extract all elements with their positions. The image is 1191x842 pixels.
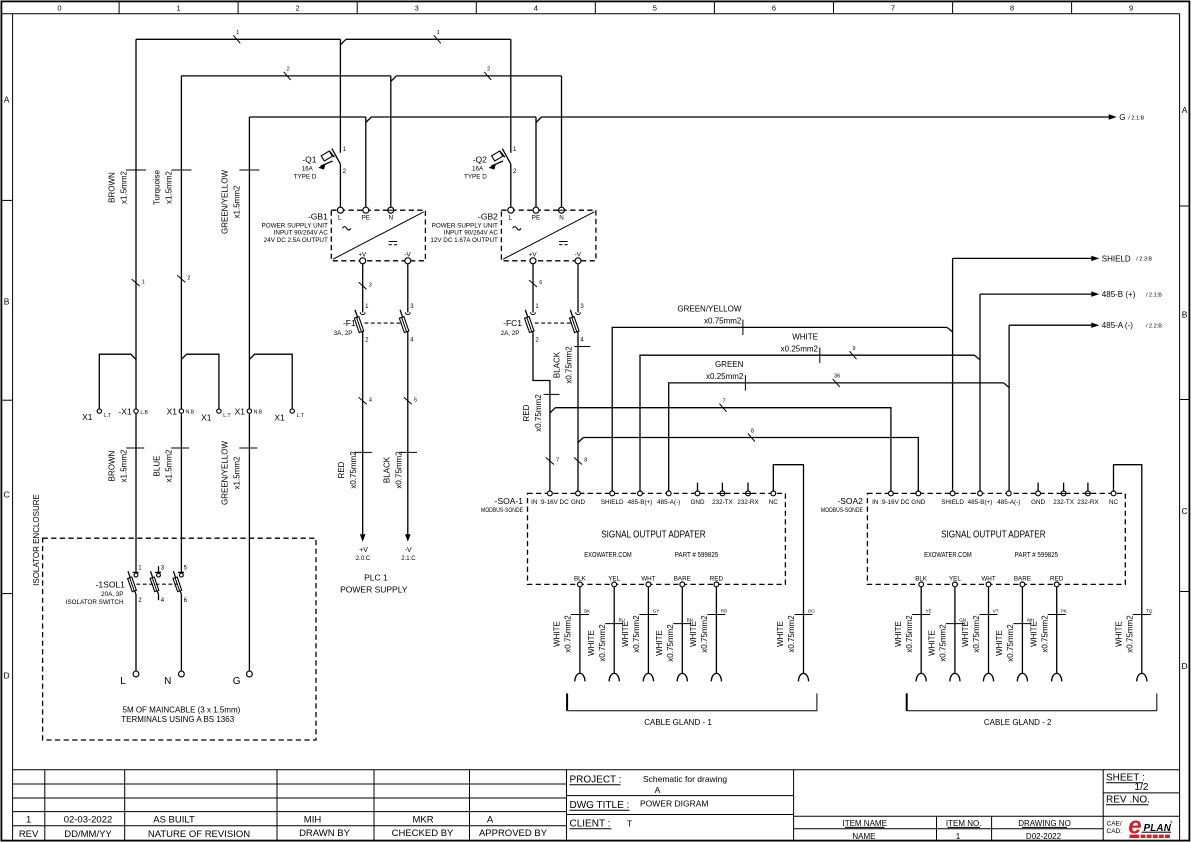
- junction to GB1 PE: [366, 117, 372, 123]
- label WHITE x0.25mm2: [781, 333, 820, 363]
- wire FC1 GND to SOA-1 GND: [577, 333, 579, 491]
- svg-text:1/2: 1/2: [1135, 782, 1149, 793]
- svg-text:L.B: L.B: [140, 410, 148, 416]
- svg-text:x0.75mm2: x0.75mm2: [787, 615, 796, 653]
- svg-text:PROJECT :: PROJECT :: [570, 775, 622, 786]
- svg-text:485-A(-): 485-A(-): [997, 499, 1020, 506]
- wire number 5: [404, 397, 417, 404]
- label BROWN x1.5mm2 lower: [107, 448, 144, 482]
- svg-text:485-A (-): 485-A (-): [1102, 321, 1133, 330]
- svg-text:EXOWATER.COM: EXOWATER.COM: [584, 552, 632, 559]
- svg-text:TERMINALS USING A BS 1363: TERMINALS USING A BS 1363: [121, 715, 234, 724]
- wire number 8 on drop: [574, 458, 587, 465]
- svg-text:B: B: [4, 297, 10, 307]
- svg-text:L: L: [120, 676, 126, 687]
- svg-text:GREEN/YELLOW: GREEN/YELLOW: [221, 170, 230, 234]
- svg-text:3: 3: [369, 282, 372, 288]
- svg-text:BLK: BLK: [915, 576, 928, 583]
- svg-text:7: 7: [891, 4, 895, 13]
- svg-text:POWER SUPPLY UNIT: POWER SUPPLY UNIT: [432, 222, 498, 229]
- svg-text:REV: REV: [19, 829, 39, 840]
- svg-text:AS BUILT: AS BUILT: [153, 815, 195, 826]
- svg-text:TYPE D: TYPE D: [464, 173, 487, 180]
- terminal X1 L.T branch 2: [181, 354, 230, 422]
- svg-text:BLK: BLK: [574, 576, 587, 583]
- svg-text:B: B: [1182, 310, 1188, 320]
- svg-text:WHT: WHT: [981, 576, 995, 583]
- label BLUE x1.5mm2: [152, 448, 189, 482]
- svg-text:232-RX: 232-RX: [1077, 499, 1099, 506]
- svg-text:MODBUS-SONDE: MODBUS-SONDE: [821, 507, 863, 514]
- wire GB1 -V down: [407, 264, 409, 313]
- svg-text:9: 9: [852, 346, 855, 352]
- svg-text:-Q2: -Q2: [473, 154, 487, 164]
- svg-text:MODBUS-SONDE: MODBUS-SONDE: [481, 507, 523, 514]
- svg-text:A: A: [655, 785, 661, 795]
- svg-text:NAME: NAME: [852, 832, 875, 841]
- SOA2 cable entry arcs: [916, 673, 1147, 681]
- svg-text:/ 2.2:B: / 2.2:B: [1146, 324, 1162, 330]
- svg-text:-SOA-1: -SOA-1: [495, 496, 524, 506]
- svg-text:GND: GND: [691, 499, 705, 506]
- svg-text:ISOLATOR ENCLOSURE: ISOLATOR ENCLOSURE: [32, 494, 41, 586]
- eplan logo: [1128, 813, 1172, 840]
- item name fields: [842, 819, 1070, 841]
- svg-text:L.T: L.T: [223, 413, 230, 419]
- svg-text:IN :9-16V DC: IN :9-16V DC: [872, 499, 910, 506]
- svg-text:BLACK: BLACK: [382, 456, 391, 483]
- svg-text:x0.75mm2: x0.75mm2: [666, 624, 675, 662]
- svg-text:x0.25mm2: x0.25mm2: [781, 344, 819, 353]
- svg-text:6: 6: [772, 4, 776, 13]
- fuse -F1 3A 2P: [334, 304, 415, 344]
- svg-text:YEL: YEL: [949, 576, 961, 583]
- svg-text:WHITE: WHITE: [995, 630, 1004, 656]
- svg-text:485-B(+): 485-B(+): [628, 499, 653, 506]
- svg-text:x0.75mm2: x0.75mm2: [1126, 615, 1135, 653]
- SOA2 output wires white: [921, 587, 1056, 673]
- svg-text:16A: 16A: [302, 165, 314, 172]
- svg-text:DRAWING NO: DRAWING NO: [1018, 819, 1071, 828]
- label GREEN/YELLOW x1.5mm2 top: [221, 170, 260, 234]
- svg-text:x1.5mm2: x1.5mm2: [164, 449, 173, 482]
- svg-text:G: G: [1119, 113, 1125, 122]
- terminal N: [164, 671, 184, 687]
- svg-text:GREEN/YELLOW: GREEN/YELLOW: [677, 305, 741, 314]
- svg-text:4: 4: [534, 4, 538, 13]
- svg-text:GND: GND: [1031, 499, 1045, 506]
- wire number 6: [529, 280, 542, 287]
- svg-text:16A: 16A: [472, 165, 484, 172]
- svg-text:-1SOL1: -1SOL1: [96, 579, 126, 589]
- left ruler ticks and letters: [1, 95, 12, 681]
- project title fields: [570, 774, 728, 830]
- svg-text:9: 9: [1129, 4, 1133, 13]
- terminal X1 N.B on turquoise wire: [167, 406, 195, 416]
- terminal L: [120, 671, 139, 687]
- svg-text:WHITE: WHITE: [587, 630, 596, 656]
- svg-text:N: N: [389, 214, 394, 221]
- svg-text:x0.75mm2: x0.75mm2: [598, 624, 607, 662]
- sheet number fields: [1106, 773, 1150, 836]
- svg-text:D: D: [4, 671, 10, 681]
- svg-text:D02-2022: D02-2022: [1026, 832, 1062, 841]
- svg-text:SHIELD: SHIELD: [941, 499, 964, 506]
- svg-text:-F1: -F1: [343, 318, 356, 328]
- svg-text:INPUT 90/264V AC: INPUT 90/264V AC: [444, 230, 499, 237]
- wire PE1 drop: [365, 117, 367, 207]
- svg-text:L: L: [508, 214, 512, 221]
- svg-text:x0.75mm2: x0.75mm2: [632, 615, 641, 653]
- wire SHIELD vertical to SOA2: [952, 258, 954, 490]
- svg-text:3A, 2P: 3A, 2P: [334, 330, 353, 337]
- svg-text:A: A: [487, 815, 494, 826]
- cable gland 2: [907, 693, 1157, 726]
- svg-text:12V DC 1.67A OUTPUT: 12V DC 1.67A OUTPUT: [430, 237, 498, 244]
- SOA-1 wire labels WHITE x0.75mm2: [553, 608, 816, 661]
- SOA-1 cable entry arcs: [575, 673, 809, 681]
- svg-text:-X1: -X1: [118, 406, 132, 416]
- svg-text:REV .NO.: REV .NO.: [1106, 795, 1150, 806]
- wire TURQUOISE vertical N: [180, 76, 182, 671]
- svg-text:N: N: [164, 676, 171, 687]
- wire GREEN/YELLOW vertical G: [248, 117, 250, 671]
- junction to Q1: [340, 39, 346, 45]
- svg-text:GREEN: GREEN: [715, 360, 744, 369]
- wire 485-B vertical to SOA2: [979, 294, 981, 491]
- maincable note: [121, 706, 240, 724]
- svg-text:BARE: BARE: [674, 576, 691, 583]
- svg-text:WHITE: WHITE: [621, 621, 630, 647]
- svg-text:WHITE: WHITE: [894, 621, 903, 647]
- svg-text:3: 3: [415, 4, 419, 13]
- svg-text:L.T: L.T: [297, 413, 304, 419]
- terminal X1 L.T branch: [82, 354, 136, 422]
- svg-text:1: 1: [236, 30, 239, 36]
- svg-text:RED: RED: [522, 404, 531, 421]
- label GREEN/YELLOW x1.5mm2 lower: [221, 441, 258, 505]
- svg-text:-V: -V: [575, 251, 582, 258]
- svg-text:YE: YE: [926, 608, 932, 613]
- power supply -GB2: [430, 207, 596, 264]
- svg-text:x0.75mm2: x0.75mm2: [394, 451, 403, 489]
- wire number 8 mark: [748, 428, 755, 441]
- svg-text:/ 2.1:B: / 2.1:B: [1146, 292, 1162, 298]
- wire number 7 on drop: [546, 458, 559, 465]
- svg-text:YEL: YEL: [608, 576, 620, 583]
- label RED x0.75mm2 at FC1: [522, 394, 560, 432]
- svg-text:1: 1: [26, 815, 31, 826]
- svg-text:x0.75mm2: x0.75mm2: [534, 394, 543, 432]
- svg-text:RED: RED: [337, 461, 346, 478]
- svg-text:L: L: [338, 214, 342, 221]
- svg-text:20A, 3P: 20A, 3P: [101, 591, 123, 598]
- wire N2 drop: [561, 76, 563, 207]
- svg-text:GY: GY: [653, 608, 660, 613]
- svg-text:WHITE: WHITE: [1115, 621, 1124, 647]
- SOA-1 unconnected stubs: [698, 483, 749, 491]
- SOA2 unconnected stubs: [1038, 483, 1088, 491]
- wire SHIELD net from SOA-1: [612, 327, 947, 490]
- svg-text:x1.5mm2: x1.5mm2: [233, 185, 242, 218]
- svg-text:1: 1: [142, 279, 145, 285]
- wire number 2 on turquoise: [177, 275, 190, 282]
- wire GB2 -V down: [577, 264, 579, 313]
- wire number 1 marks on L1: [233, 30, 440, 43]
- svg-text:NC: NC: [769, 499, 779, 506]
- svg-text:X1: X1: [201, 412, 212, 422]
- svg-text:8: 8: [751, 428, 754, 434]
- SOA2 NC loop wire: [1114, 465, 1142, 674]
- breaker -Q1 16A TYPE D: [294, 147, 347, 181]
- SOA-1 labels: [481, 496, 718, 559]
- svg-text:PART # 599825: PART # 599825: [1015, 552, 1059, 559]
- svg-text:7: 7: [556, 458, 559, 464]
- SOA2 wire labels WHITE x0.75mm2: [894, 608, 1153, 661]
- svg-text:T: T: [627, 819, 632, 829]
- SOA2 top terminals: [872, 491, 1118, 506]
- svg-text:GND: GND: [571, 499, 585, 506]
- svg-text:0: 0: [57, 4, 61, 13]
- svg-text:-Q1: -Q1: [302, 154, 316, 164]
- isolator switch -1SOL1 20A 3P: [66, 566, 188, 606]
- svg-text:WHITE: WHITE: [776, 621, 785, 647]
- svg-text:+V: +V: [358, 251, 367, 258]
- wire F1 out to PLC +V: [362, 333, 364, 535]
- svg-text:DD/MM/YY: DD/MM/YY: [64, 829, 112, 840]
- svg-text:WHITE: WHITE: [553, 621, 562, 647]
- svg-text:L.T: L.T: [104, 413, 111, 419]
- svg-text:6: 6: [539, 280, 542, 286]
- svg-text:36: 36: [834, 374, 840, 380]
- isolator enclosure box: [32, 494, 316, 740]
- wire FC1 +12V jog to SOA-1 IN: [533, 333, 550, 491]
- svg-text:x0.75mm2: x0.75mm2: [349, 451, 358, 489]
- svg-text:CAD:: CAD:: [1107, 828, 1123, 835]
- SOA2 labels: [821, 496, 1058, 559]
- svg-text:x0.75mm2: x0.75mm2: [700, 615, 709, 653]
- svg-text:GND: GND: [911, 499, 925, 506]
- svg-text:APPROVED BY: APPROVED BY: [479, 828, 548, 839]
- label PLC 1 POWER SUPPLY: [340, 573, 408, 595]
- svg-text:OG: OG: [808, 608, 816, 613]
- svg-text:CAE/: CAE/: [1107, 821, 1122, 828]
- title block grid: [13, 770, 1180, 841]
- svg-text:2: 2: [287, 67, 290, 73]
- wire GB2 +V to FC1: [532, 264, 534, 313]
- junction RED branch: [550, 408, 556, 413]
- wire 485-A net from SOA-1: [669, 383, 1004, 491]
- svg-text:x0.75mm2: x0.75mm2: [1006, 624, 1015, 662]
- svg-text:232-RX: 232-RX: [737, 499, 759, 506]
- svg-text:NATURE OF REVISION: NATURE OF REVISION: [148, 829, 250, 840]
- SOA-1 bottom terminals: [574, 576, 724, 587]
- svg-text:+V: +V: [529, 251, 538, 258]
- svg-text:2: 2: [296, 4, 300, 13]
- svg-text:+V: +V: [359, 547, 368, 554]
- svg-text:CLIENT :: CLIENT :: [570, 819, 611, 830]
- svg-text:POWER DIGRAM: POWER DIGRAM: [640, 799, 708, 809]
- svg-text:1: 1: [437, 30, 440, 36]
- svg-text:D: D: [1182, 661, 1188, 671]
- svg-text:x1.5mm2: x1.5mm2: [233, 456, 242, 489]
- svg-text:x0.75mm2: x0.75mm2: [939, 624, 948, 662]
- svg-text:WHT: WHT: [641, 576, 655, 583]
- svg-text:ITEM NAME: ITEM NAME: [842, 819, 886, 828]
- svg-text:x0.75mm2: x0.75mm2: [972, 615, 981, 653]
- svg-text:BROWN: BROWN: [107, 450, 116, 481]
- junction BLACK branch: [578, 438, 583, 443]
- svg-text:x1.5mm2: x1.5mm2: [119, 449, 128, 482]
- terminal G: [233, 671, 253, 687]
- svg-text:ISOLATOR SWITCH: ISOLATOR SWITCH: [66, 599, 124, 606]
- svg-text:1: 1: [956, 832, 961, 841]
- wire BLACK net to SOA2 GND: [583, 438, 918, 491]
- svg-text:WHITE: WHITE: [655, 630, 664, 656]
- svg-text:-V: -V: [405, 547, 412, 554]
- wire N1 drop: [390, 76, 392, 207]
- svg-text:-FC1: -FC1: [503, 318, 522, 328]
- terminal -X1 L.B on brown wire: [118, 406, 148, 416]
- svg-text:x0.25mm2: x0.25mm2: [706, 372, 744, 381]
- svg-text:WHITE: WHITE: [792, 333, 818, 342]
- svg-text:5: 5: [414, 398, 417, 404]
- wire 485-B arrow line: [980, 290, 1162, 299]
- svg-text:EXOWATER.COM: EXOWATER.COM: [924, 552, 972, 559]
- svg-text:x0.75mm2: x0.75mm2: [565, 346, 574, 384]
- svg-text:POWER SUPPLY: POWER SUPPLY: [340, 585, 408, 595]
- terminal X1 L.T branch 3: [249, 354, 303, 422]
- svg-text:SIGNAL OUTPUT ADPATER: SIGNAL OUTPUT ADPATER: [941, 528, 1046, 540]
- svg-text:4: 4: [369, 398, 372, 404]
- right ruler ticks and letters: [1180, 105, 1190, 671]
- svg-text:BARE: BARE: [1014, 576, 1031, 583]
- svg-text:BK: BK: [584, 608, 590, 613]
- wire 485-A vertical to SOA2: [1008, 325, 1010, 491]
- svg-text:1: 1: [177, 4, 181, 13]
- svg-text:2A, 2P: 2A, 2P: [501, 330, 520, 337]
- svg-text:PK: PK: [1061, 608, 1067, 613]
- wire N top horizontal (net 2): [181, 75, 561, 77]
- svg-text:N.B: N.B: [186, 409, 195, 415]
- net arrow -V 2.1:C to PLC: [401, 534, 416, 562]
- svg-text:x1.5mm2: x1.5mm2: [119, 171, 128, 204]
- wire number 36 mark: [833, 374, 841, 387]
- svg-text:WHITE: WHITE: [689, 621, 698, 647]
- wire Q1 drop from net1: [339, 39, 341, 207]
- svg-text:X1: X1: [167, 406, 178, 416]
- svg-text:IN :9-16V DC: IN :9-16V DC: [531, 499, 569, 506]
- svg-text:8: 8: [584, 458, 587, 464]
- svg-text:232-TX: 232-TX: [1053, 499, 1074, 506]
- svg-text:BROWN: BROWN: [107, 172, 116, 203]
- wire GB1 +V to F1: [362, 264, 364, 313]
- wire Q2 drop from net1: [510, 39, 512, 207]
- wire number 9 mark: [850, 346, 857, 359]
- svg-text:x0.75mm2: x0.75mm2: [1040, 615, 1049, 653]
- wire 485-B net from SOA-1: [640, 355, 975, 491]
- power supply -GB1: [262, 207, 426, 264]
- svg-text:BLUE: BLUE: [152, 456, 161, 477]
- svg-text:5: 5: [653, 4, 657, 13]
- svg-text:-SOA2: -SOA2: [837, 496, 863, 506]
- svg-text:CHECKED BY: CHECKED BY: [392, 828, 454, 839]
- svg-text:-GB1: -GB1: [308, 212, 328, 222]
- wire L1 top horizontal (net 1): [136, 38, 511, 40]
- svg-text:RED: RED: [1050, 576, 1064, 583]
- svg-text:485-B (+): 485-B (+): [1102, 290, 1136, 299]
- svg-text:PE: PE: [532, 214, 540, 221]
- svg-text:A: A: [1182, 105, 1188, 115]
- svg-text:/ 2.3:B: / 2.3:B: [1136, 257, 1152, 263]
- svg-text:N.B: N.B: [254, 409, 263, 415]
- fuse -FC1 2A 2P: [501, 304, 585, 344]
- svg-text:WHITE: WHITE: [961, 621, 970, 647]
- svg-text:5M OF MAINCABLE (3 x 1.5mm): 5M OF MAINCABLE (3 x 1.5mm): [123, 706, 241, 715]
- svg-text:SHIELD: SHIELD: [1102, 254, 1131, 263]
- svg-text:POWER SUPPLY UNIT: POWER SUPPLY UNIT: [262, 222, 328, 229]
- svg-text:VT: VT: [993, 608, 999, 613]
- svg-text:485-B(+): 485-B(+): [968, 499, 993, 506]
- svg-text:C: C: [1182, 506, 1188, 516]
- net arrow G / 2.1:B: [1109, 113, 1145, 122]
- wire RED net to SOA2 IN: [555, 408, 891, 491]
- wire PE2 drop: [535, 117, 537, 207]
- svg-text:7: 7: [722, 399, 725, 405]
- svg-text:DRAWN BY: DRAWN BY: [299, 828, 351, 839]
- SOA-1 NC loop wire: [773, 465, 803, 674]
- svg-text:MKR: MKR: [412, 815, 433, 826]
- svg-text:RED: RED: [710, 576, 724, 583]
- svg-text:2: 2: [187, 276, 190, 282]
- svg-text:8: 8: [1010, 4, 1014, 13]
- svg-text:ITEM NO.: ITEM NO.: [946, 819, 982, 828]
- svg-text:TQ: TQ: [1146, 608, 1153, 613]
- label BLACK x0.75mm2 at FC1: [553, 346, 591, 384]
- junction to GB1 N: [391, 76, 397, 82]
- svg-text:NC: NC: [1109, 499, 1119, 506]
- label GREEN/YELLOW x0.75mm2: [677, 305, 743, 336]
- svg-text:INPUT 90/264V AC: INPUT 90/264V AC: [274, 230, 329, 237]
- svg-text:GREEN/YELLOW: GREEN/YELLOW: [221, 441, 230, 505]
- SOA2 bottom terminals: [915, 576, 1064, 587]
- svg-text:x0.75mm2: x0.75mm2: [704, 316, 742, 325]
- wire F1 out to PLC -V: [407, 333, 409, 535]
- svg-text:WHITE: WHITE: [1029, 621, 1038, 647]
- svg-text:G: G: [233, 676, 241, 687]
- wire SHIELD arrow line: [953, 254, 1153, 263]
- svg-text:x0.75mm2: x0.75mm2: [564, 615, 573, 653]
- svg-text:TYPE D: TYPE D: [294, 173, 317, 180]
- module SOA-1 box: [528, 493, 786, 584]
- wire number 7 mark: [720, 399, 727, 412]
- net arrow +V 2.0:C to PLC: [356, 534, 371, 562]
- svg-text:PE: PE: [362, 214, 370, 221]
- label Turquoise x1.5mm2: [153, 169, 192, 205]
- svg-text:X1: X1: [274, 412, 285, 422]
- svg-text:X1: X1: [235, 406, 246, 416]
- svg-text:WHITE: WHITE: [928, 630, 937, 656]
- svg-text:X1: X1: [82, 412, 93, 422]
- wire G horizontal (ground net): [249, 116, 1109, 118]
- SOA-1 top terminals: [531, 491, 778, 506]
- svg-text:N: N: [559, 214, 564, 221]
- module SOA2 box: [867, 493, 1125, 584]
- svg-text:RD: RD: [721, 608, 728, 613]
- wire number 3: [359, 282, 372, 289]
- svg-text:A: A: [4, 95, 10, 105]
- wire BROWN vertical L: [135, 39, 137, 671]
